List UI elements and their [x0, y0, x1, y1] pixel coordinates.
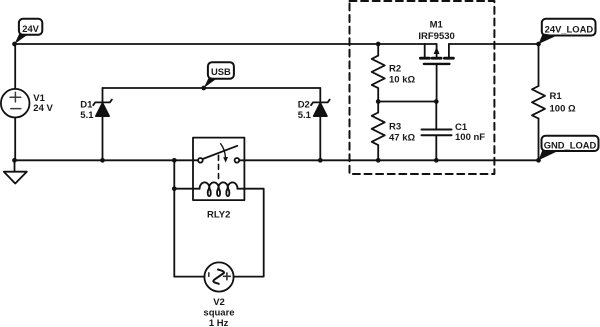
voltage source V2	[204, 262, 233, 291]
zener diode D1	[93, 88, 112, 160]
wire gate divider junction	[378, 101, 436, 103]
svg-text:24V_LOAD: 24V_LOAD	[545, 23, 594, 34]
svg-text:GND_LOAD: GND_LOAD	[544, 139, 597, 150]
relay RLY2 link dashed line	[218, 155, 220, 179]
svg-text:D1: D1	[80, 100, 93, 111]
relay RLY2 switch blade	[203, 146, 238, 159]
node C1 bottom	[434, 158, 439, 163]
resistor R3	[372, 102, 385, 161]
svg-text:10 kΩ: 10 kΩ	[389, 75, 415, 86]
svg-text:D2: D2	[298, 100, 310, 111]
voltage source V1	[1, 44, 30, 160]
node divider left	[376, 99, 381, 104]
dashed subcircuit box	[350, 1, 495, 174]
net flag 24V_LOAD	[539, 19, 596, 44]
node ground rail left	[12, 158, 17, 163]
resistor R2	[372, 44, 385, 102]
svg-text:R1: R1	[550, 91, 563, 102]
svg-text:RLY2: RLY2	[207, 210, 230, 221]
svg-text:47 kΩ: 47 kΩ	[389, 132, 415, 143]
node 24V_LOAD	[536, 42, 541, 47]
svg-text:R2: R2	[389, 64, 401, 75]
svg-text:100 nF: 100 nF	[455, 132, 485, 143]
relay RLY2 actuation arrow	[221, 144, 228, 163]
wire bottom rail right (GND_LOAD side)	[239, 159, 538, 161]
MOSFET M1	[420, 44, 453, 102]
resistor R1	[532, 44, 545, 160]
wire relay coil right lead	[234, 189, 264, 277]
relay RLY2 switch left contact	[198, 158, 203, 163]
wire top rail 24V_LOAD net	[449, 43, 539, 45]
svg-text:V2: V2	[213, 297, 225, 308]
svg-text:square: square	[203, 308, 234, 319]
node relay left	[172, 158, 177, 163]
svg-text:IRF9530: IRF9530	[418, 31, 454, 42]
node R3 bottom	[376, 158, 381, 163]
net flag USB	[204, 62, 234, 88]
node 24V	[12, 42, 17, 47]
wire top rail 24V net	[15, 43, 425, 45]
relay RLY2 switch right contact	[235, 158, 240, 163]
capacitor C1	[422, 102, 452, 161]
wire relay coil left lead	[174, 188, 199, 190]
wire USB net horizontal	[103, 87, 321, 89]
ground	[4, 160, 27, 183]
svg-text:R3: R3	[389, 121, 401, 132]
svg-text:100 Ω: 100 Ω	[550, 104, 576, 115]
wire relay left vertical	[173, 160, 175, 276]
node coil left	[172, 186, 177, 191]
svg-text:M1: M1	[430, 19, 444, 30]
zener diode D2	[311, 88, 330, 160]
node divider right C1 top	[434, 99, 439, 104]
svg-text:1 Hz: 1 Hz	[209, 318, 229, 327]
wire bottom rail left (ground side)	[15, 159, 199, 161]
svg-text:24 V: 24 V	[33, 103, 53, 114]
svg-text:5.1: 5.1	[298, 110, 312, 121]
relay RLY2 box	[193, 138, 244, 201]
svg-text:5.1: 5.1	[80, 110, 94, 121]
node D2 anode	[318, 158, 323, 163]
wire V2 left lead	[174, 276, 204, 278]
svg-text:24V: 24V	[22, 23, 39, 34]
net flag 24V	[15, 19, 43, 44]
net flag GND_LOAD	[539, 136, 599, 161]
node R2 top	[376, 42, 381, 47]
node USB flag	[201, 86, 206, 91]
relay RLY2 coil	[200, 182, 238, 196]
node D1 anode	[100, 158, 105, 163]
node GND_LOAD	[536, 158, 541, 163]
svg-text:USB: USB	[211, 66, 231, 77]
